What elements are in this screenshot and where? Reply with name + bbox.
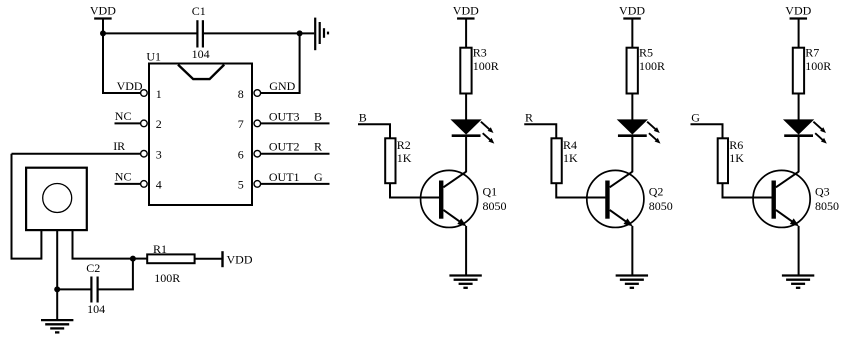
pin 3 wire (IR input)	[12, 153, 141, 155]
wire LED cathode to Q2 collector	[631, 136, 633, 173]
svg-text:5: 5	[238, 178, 244, 192]
transistor Q3 base bar	[772, 181, 776, 219]
svg-text:IR: IR	[113, 139, 125, 153]
resistor R3	[460, 48, 471, 94]
transistor Q3 collector stroke	[776, 172, 799, 188]
wire R1 to VDD terminal	[195, 258, 222, 260]
IC U1 notch	[178, 65, 224, 80]
resistor R6	[718, 138, 728, 183]
svg-text:2: 2	[156, 117, 162, 131]
svg-text:C2: C2	[86, 261, 100, 275]
pin 2 circle	[141, 120, 148, 127]
svg-text:R3: R3	[473, 46, 487, 60]
pin 3 circle	[141, 150, 148, 157]
wire VDD to R3	[465, 19, 467, 49]
transistor Q1 base bar	[439, 181, 443, 219]
wire R7 to LED anode	[798, 94, 800, 121]
LED D-1 triangle	[452, 120, 481, 134]
svg-text:VDD: VDD	[90, 4, 116, 18]
wire Q2 emitter to ground	[631, 226, 633, 276]
svg-text:100R: 100R	[639, 59, 665, 73]
resistor R2	[385, 138, 395, 183]
transistor Q1 circle	[421, 170, 478, 227]
svg-text:R4: R4	[563, 138, 577, 152]
svg-text:R6: R6	[729, 138, 743, 152]
pin 7 circle	[254, 120, 261, 127]
svg-text:VDD: VDD	[117, 79, 143, 93]
wire VDD node to C1 left plate	[103, 32, 197, 34]
wire IC pin 8 (GND) riser	[261, 33, 300, 93]
wire receiver OUT lead to IC pin 3	[12, 154, 42, 259]
svg-text:U1: U1	[146, 50, 161, 64]
resistor R7	[793, 48, 804, 94]
wire VCC node down to C2	[98, 259, 133, 290]
wire VDD to R5	[631, 19, 633, 49]
junction GND node	[297, 30, 303, 36]
wire R2 to Q1 base	[390, 183, 439, 197]
pin 4 circle	[141, 181, 148, 188]
junction VCC node	[130, 256, 136, 262]
wire input B to R2	[358, 124, 390, 138]
svg-text:VDD: VDD	[453, 4, 479, 18]
wire R5 to LED anode	[631, 94, 633, 121]
LED emission arrow 1	[481, 122, 494, 133]
svg-text:VDD: VDD	[785, 4, 811, 18]
svg-text:3: 3	[156, 148, 162, 162]
wire receiver VCC lead	[73, 229, 133, 259]
LED emission arrow 2	[815, 133, 827, 143]
LED emission arrow 2	[483, 133, 495, 143]
wire input G to R6	[691, 124, 723, 138]
IR receiver module body	[26, 168, 87, 230]
resistor R1	[147, 254, 194, 263]
LED D-1 cathode bar	[452, 134, 481, 137]
svg-text:1: 1	[156, 87, 162, 101]
svg-text:4: 4	[156, 178, 162, 192]
svg-text:B: B	[359, 111, 367, 125]
power terminal VDD (R1)	[223, 251, 253, 267]
transistor Q2 circle	[587, 170, 644, 227]
junction VDD node	[100, 30, 106, 36]
svg-text:1K: 1K	[563, 151, 578, 165]
svg-text:8050: 8050	[483, 199, 507, 213]
LED D-2 cathode bar	[618, 134, 647, 137]
transistor Q2 emitter stroke with arrow	[610, 210, 633, 227]
svg-text:Q3: Q3	[815, 184, 830, 198]
svg-text:100R: 100R	[473, 59, 499, 73]
pin 1 circle	[141, 90, 148, 97]
svg-text:R: R	[314, 140, 322, 154]
svg-text:100R: 100R	[805, 59, 831, 73]
power symbol VDD (Q2 stage)	[619, 4, 645, 19]
power symbol VDD (Q1 stage)	[453, 4, 479, 19]
svg-text:NC: NC	[115, 109, 132, 123]
pin 4 stub (NC)	[115, 183, 141, 185]
svg-text:VDD: VDD	[227, 253, 253, 267]
svg-text:VDD: VDD	[619, 4, 645, 18]
wire VDD stem to IC pin 1	[103, 19, 141, 94]
wire R6 to Q3 base	[723, 183, 772, 197]
svg-text:8: 8	[238, 87, 244, 101]
resistor R5	[627, 48, 638, 94]
svg-text:100R: 100R	[154, 271, 180, 285]
svg-text:NC: NC	[115, 169, 132, 183]
wire C1 right plate to earth	[203, 32, 314, 34]
capacitor C1	[197, 20, 203, 47]
svg-text:104: 104	[87, 302, 105, 316]
svg-text:OUT1: OUT1	[269, 170, 300, 184]
pin 6 circle	[254, 150, 261, 157]
wire receiver GND lead	[56, 229, 58, 320]
junction ground node	[54, 286, 60, 292]
transistor Q3 circle	[753, 170, 810, 227]
svg-text:R: R	[525, 111, 533, 125]
ground symbol (Q2 emitter)	[616, 276, 648, 288]
svg-text:R7: R7	[805, 46, 819, 60]
transistor Q2 base bar	[605, 181, 609, 219]
svg-text:G: G	[691, 111, 700, 125]
svg-text:GND: GND	[269, 79, 295, 93]
transistor Q1 collector stroke	[443, 172, 466, 188]
capacitor C2	[91, 277, 97, 303]
svg-text:1K: 1K	[397, 151, 412, 165]
wire C2 left plate to GND lead	[57, 288, 91, 290]
svg-text:8050: 8050	[815, 199, 839, 213]
IR receiver lens circle	[43, 184, 72, 213]
pin 1 wire (VDD)	[103, 92, 141, 94]
svg-text:R5: R5	[639, 46, 653, 60]
svg-text:Q1: Q1	[483, 184, 498, 198]
ground symbol (Q1 emitter)	[449, 276, 481, 288]
wire VCC node to R1	[133, 258, 147, 260]
transistor Q3 emitter stroke with arrow	[776, 210, 799, 227]
power symbol VDD (Q3 stage)	[785, 4, 811, 19]
pin 5 wire (OUT1)	[261, 183, 330, 185]
svg-text:7: 7	[238, 117, 244, 131]
IC U1 body	[149, 64, 252, 206]
wire R4 to Q2 base	[556, 183, 605, 197]
svg-text:R1: R1	[153, 242, 167, 256]
pin 6 wire (OUT2)	[261, 153, 330, 155]
LED D-3 triangle	[784, 120, 813, 134]
wire Q3 emitter to ground	[798, 226, 800, 276]
pin 7 wire (OUT3)	[261, 122, 330, 124]
wire input R to R4	[524, 124, 556, 138]
svg-text:8050: 8050	[649, 199, 673, 213]
pin 5 circle	[254, 181, 261, 188]
svg-text:1K: 1K	[729, 151, 744, 165]
earth ground (top right, rotated)	[315, 18, 328, 51]
ground symbol (receiver)	[41, 320, 73, 332]
svg-text:G: G	[314, 170, 323, 184]
svg-text:Q2: Q2	[649, 184, 664, 198]
svg-text:6: 6	[238, 148, 244, 162]
resistor R4	[551, 138, 561, 183]
LED D-2 triangle	[618, 120, 647, 134]
transistor Q1 emitter stroke with arrow	[443, 210, 466, 227]
wire LED cathode to Q1 collector	[465, 136, 467, 173]
transistor Q2 collector stroke	[610, 172, 633, 188]
svg-text:B: B	[314, 109, 322, 123]
wire LED cathode to Q3 collector	[798, 136, 800, 173]
LED emission arrow 2	[649, 133, 661, 143]
svg-text:C1: C1	[192, 4, 206, 18]
svg-text:OUT2: OUT2	[269, 140, 300, 154]
svg-text:R2: R2	[397, 138, 411, 152]
power symbol VDD (IC supply)	[90, 4, 116, 19]
LED D-3 cathode bar	[784, 134, 813, 137]
wire Q1 emitter to ground	[465, 226, 467, 276]
ground symbol (Q3 emitter)	[782, 276, 814, 288]
wire R3 to LED anode	[465, 94, 467, 121]
LED emission arrow 1	[647, 122, 660, 133]
svg-text:OUT3: OUT3	[269, 109, 300, 123]
pin 2 stub (NC)	[115, 122, 141, 124]
wire VDD to R7	[798, 19, 800, 49]
LED emission arrow 1	[813, 122, 826, 133]
svg-text:104: 104	[192, 47, 210, 61]
pin 8 circle	[254, 90, 261, 97]
